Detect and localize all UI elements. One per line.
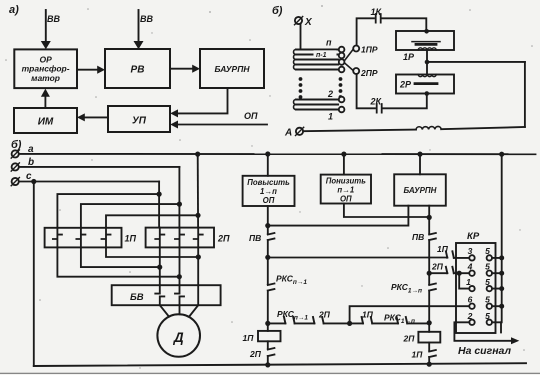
svg-text:РВ: РВ [131,65,145,76]
coil bumps on 1R bottom lead [418,48,436,50]
coil 1P box [258,331,281,341]
svg-text:c: c [26,171,32,182]
wire node to right rail [429,61,525,63]
wire 1PR up to 1K [357,18,374,45]
svg-text:1Р: 1Р [403,52,415,62]
svg-text:матор: матор [31,73,60,83]
wire Ponizit output to right rail [344,204,429,218]
terminal X [295,17,302,24]
node to lower branch [265,321,270,326]
wire arrow RV to BAURPN [170,68,192,70]
KR right rail [500,154,503,332]
tap circle 2 [339,97,345,103]
wire 2R bottom to 2K [383,94,427,109]
node inside KR to terminal 1 [457,271,462,276]
winding left loop arcs [294,50,297,70]
tap circles upper [339,47,345,53]
wire to contact 1P-KR and terminal 3 [268,257,470,259]
wire BAURPN2 right output [428,206,430,234]
wire A to inductor [303,130,416,132]
selector arm wires [344,49,353,70]
contact 2P-1 [155,228,164,248]
svg-text:КР: КР [467,231,480,242]
inductor on A line [416,126,441,129]
wire phase a down into contacts [197,154,199,228]
contact 1P-1 [53,228,62,248]
wire BB arrow into RV [138,10,140,42]
svg-text:ВВ: ВВ [140,14,153,24]
svg-text:2ПР: 2ПР [360,68,378,78]
svg-text:X: X [304,17,313,28]
svg-text:БАУРПН: БАУРПН [215,64,251,74]
svg-text:2П: 2П [217,234,230,244]
contactor block 1P box [45,228,122,248]
motor D [157,314,200,357]
left rail down from line c [33,182,35,367]
stem between relays [426,50,428,75]
wire arrow BAURPN down to UP [178,88,228,113]
wire arrow OR to RV [77,69,97,71]
svg-text:БАУРПН: БАУРПН [404,186,437,195]
wire 1P-3 output [106,247,198,257]
node on line a to KR rail [499,152,504,157]
block Ponizit box [321,175,371,204]
svg-text:п-1: п-1 [316,52,327,59]
selector contact 1PR [353,46,359,52]
block RV [105,49,170,88]
wire X to winding top [300,24,302,49]
winding ellipsis dots [299,77,303,81]
svg-text:ПВ: ПВ [249,233,261,243]
svg-text:2П: 2П [249,349,262,359]
wire down to Ponizit [343,154,345,175]
svg-text:УП: УП [132,116,147,127]
crossover wire to 1P contact 1 [57,194,159,228]
wire to bottom rail [267,356,269,365]
contact 1P-2 [76,228,85,248]
winding bars (autotransformer) [296,50,338,70]
wire phase b down into contacts [178,167,180,228]
wire 2P-1 down to BV [159,247,161,285]
svg-text:БВ: БВ [130,292,144,303]
label n-1 [314,50,337,57]
block Povysit box [243,176,295,206]
wire coil to 2P contact [267,341,269,348]
svg-text:1П: 1П [125,234,137,244]
wire inductor to right rail [441,127,525,129]
node Povysit join [265,223,270,228]
svg-text:трансфор-: трансфор- [22,64,70,74]
node mid branch [347,321,352,326]
svg-text:А: А [284,128,292,139]
wire up and right to terminal 6 [350,306,470,323]
svg-text:Понизить: Понизить [326,177,367,186]
svg-text:ПВ: ПВ [412,232,424,242]
wire terminal 2 to signal [454,322,511,341]
node at 2R bottom [425,91,430,96]
block OR transformer [14,49,77,88]
wire BB arrow into OR transformer [45,10,47,42]
wire down to BAURPN2 [419,154,421,174]
svg-text:Повысить: Повысить [247,178,290,187]
node on line a [195,152,200,157]
right control rail [428,240,430,332]
svg-text:б): б) [272,5,283,17]
wire 2K to 2PR [357,74,375,108]
wires 5 terminals to right rail [492,258,502,322]
phase line c [19,181,159,183]
svg-text:Д: Д [173,330,184,345]
node right outputs join [427,215,432,220]
svg-text:2П: 2П [318,310,331,320]
bottom rail [34,363,526,366]
svg-text:ИМ: ИМ [38,117,54,128]
tap circle 1 [339,107,345,113]
block BAURPN [200,49,264,88]
wire 1K to relay 1R [382,18,426,30]
node on line c at left rail [31,179,36,184]
selector contact 2PR [353,68,359,74]
motor lead left [160,305,169,316]
motor lead right [189,305,198,316]
wire 2P-2 down to BV [179,247,181,285]
right rail of section b [524,62,526,127]
svg-text:1→п: 1→п [260,187,277,196]
wire Povysit output [267,206,269,234]
svg-text:ОП: ОП [244,111,258,121]
svg-text:2Р: 2Р [399,80,412,90]
svg-text:2: 2 [327,89,333,99]
contact 1P-3 [102,228,111,248]
terminal a [12,150,19,157]
node lower branch joins right rail [427,320,432,325]
svg-text:На сигнал: На сигнал [458,345,512,357]
svg-text:1П: 1П [412,350,424,360]
contact BV-1 [155,285,164,305]
node to KR-3 branch [265,255,270,260]
wire arrow UP to IM [85,116,108,118]
node phase c branch [157,192,162,197]
wire phase c down into contacts [158,182,160,228]
svg-text:п: п [326,38,332,48]
node line a to BAURPN2 [417,152,422,157]
wire down to Povysit [267,154,269,176]
contact 2P-2 [175,228,184,248]
nodes on KR rail [499,255,504,260]
wire 2P-3 down through BV [197,247,199,305]
relay 1R box [396,31,454,50]
contactor block 2P box [146,228,214,248]
svg-text:1: 1 [328,112,333,122]
svg-text:2П: 2П [403,334,416,344]
node join 2P-2 [177,274,182,279]
phase line a [19,153,536,155]
wire to contact 2P-KR and terminal 4 [429,272,469,274]
node on bottom rail right [427,362,432,367]
node line a to Povysit [265,151,270,156]
wire to terminal 1 [459,273,469,288]
svg-text:ОП: ОП [263,196,275,205]
node to KR-4 branch [427,271,432,276]
coil 2P box [418,332,440,343]
node phase a branch [195,213,200,218]
crossover wire to 1P contact 2 [81,204,179,228]
wire arrow IM up to OR transformer [44,97,46,109]
node at 1R top [424,29,429,34]
node join 2P-3 [196,254,201,259]
node between relays [425,60,430,65]
crossover wire to 1P contact 3 [106,215,198,228]
wire coil to 1P contact [428,343,430,351]
wire arrow OP into UP [178,124,267,126]
svg-text:п→1: п→1 [337,186,354,195]
svg-text:1ПР: 1ПР [361,45,378,55]
svg-text:2П: 2П [431,262,444,272]
block BAURPN2 box [394,174,446,205]
svg-text:а): а) [9,4,19,16]
node line a to Ponizit [341,152,346,157]
svg-text:1П: 1П [243,333,255,343]
node phase b branch [177,202,182,207]
block IM [14,108,77,133]
wire to bottom rail [428,357,430,365]
contact 2P-3 [194,228,203,248]
left control rail [267,240,269,331]
wire 1P-1 output crossover [57,247,178,276]
winding bars lower [296,100,338,110]
wire 1P-2 output crossover [81,247,159,267]
scan artifact bottom line [0,372,540,374]
coil bumps on 2R top lead [418,75,436,77]
terminal b [12,163,19,170]
phase line b [19,166,180,168]
wire BAURPN2 left output [268,206,409,226]
lower branch wire left part [268,322,430,324]
terminal c [12,178,19,185]
block KR box [456,243,496,333]
svg-text:ВВ: ВВ [47,14,60,24]
svg-text:ОП: ОП [340,195,352,204]
block BV box [112,285,221,305]
relay 2R box [396,75,454,94]
node join 2P-1 [157,265,162,270]
motor lead middle [179,305,181,314]
node on bottom rail left [265,362,270,367]
svg-text:б): б) [11,139,22,151]
contact BV-2 [175,285,184,305]
block UP [108,106,170,132]
